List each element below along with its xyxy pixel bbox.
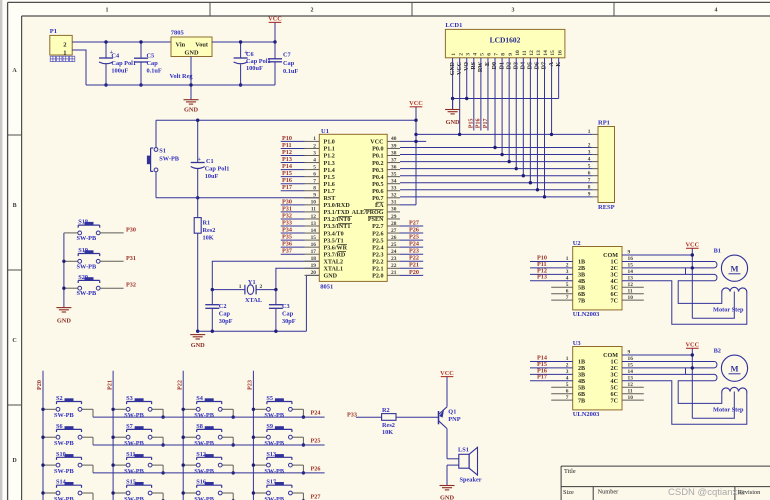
svg-text:VCC: VCC [685, 242, 699, 249]
resistor R2 [382, 414, 396, 421]
svg-text:Res2: Res2 [382, 422, 395, 429]
svg-text:SW-PB: SW-PB [264, 468, 285, 475]
svg-text:6: 6 [487, 53, 493, 56]
wire S17 to row bus [302, 493, 304, 500]
wire S14 to row bus [92, 493, 94, 500]
node row1 bus col3 [232, 415, 235, 418]
svg-text:Cap Pol1: Cap Pol1 [246, 58, 271, 65]
svg-text:P15: P15 [282, 170, 292, 177]
svg-text:S1: S1 [159, 147, 166, 154]
svg-text:6B: 6B [578, 392, 585, 398]
switch S19 [64, 260, 78, 262]
svg-text:10: 10 [311, 200, 317, 206]
svg-text:3C: 3C [611, 273, 618, 279]
svg-text:2: 2 [313, 143, 316, 149]
svg-text:P1.4: P1.4 [324, 168, 335, 174]
switch S6 [43, 436, 56, 438]
svg-text:S6: S6 [56, 423, 63, 430]
resistor pack RP1 body [598, 127, 615, 203]
svg-text:P3.5/T1: P3.5/T1 [324, 238, 344, 244]
svg-text:P17: P17 [483, 119, 489, 129]
svg-text:Volt Reg: Volt Reg [170, 73, 194, 80]
svg-text:22: 22 [391, 263, 397, 269]
svg-text:VCC: VCC [370, 140, 383, 146]
svg-text:P1.7: P1.7 [324, 189, 335, 195]
svg-text:SW-PB: SW-PB [194, 440, 215, 447]
wire 1C winding [622, 260, 715, 262]
svg-text:5B: 5B [578, 285, 585, 291]
svg-text:7805: 7805 [171, 30, 185, 37]
svg-text:1: 1 [313, 136, 316, 142]
svg-text:P13: P13 [282, 156, 292, 163]
svg-text:D: D [12, 458, 17, 464]
svg-text:5: 5 [313, 164, 316, 170]
svg-text:7: 7 [588, 178, 591, 184]
svg-text:16: 16 [557, 50, 563, 56]
svg-text:2: 2 [311, 8, 314, 14]
svg-text:P1.5: P1.5 [324, 175, 335, 181]
svg-text:SW-PB: SW-PB [77, 263, 98, 270]
svg-text:Cap: Cap [283, 60, 295, 67]
wire S3 to row bus [162, 409, 164, 417]
svg-text:36: 36 [391, 164, 397, 170]
svg-text:P25: P25 [409, 234, 419, 241]
svg-text:M: M [730, 364, 738, 374]
keypad row bus 2 [93, 444, 325, 446]
svg-text:LCD1602: LCD1602 [490, 36, 521, 45]
svg-text:SW-PB: SW-PB [124, 440, 145, 447]
svg-text:3B: 3B [578, 273, 585, 279]
keypad row bus 3 [93, 472, 325, 474]
switch S18 [64, 232, 78, 234]
capacitor C1 [197, 120, 199, 162]
wire S15 to row bus [162, 493, 164, 500]
svg-text:4: 4 [566, 375, 569, 381]
switch S11 [113, 464, 126, 466]
node R1 bottom [196, 330, 199, 333]
svg-text:RESP: RESP [598, 204, 615, 211]
switch S7 [113, 436, 126, 438]
svg-text:100uF: 100uF [111, 68, 128, 75]
wire S13 to row bus [302, 465, 304, 473]
svg-text:U2: U2 [573, 240, 581, 247]
wire hook2 return to coil left [678, 281, 722, 304]
svg-text:EA: EA [375, 203, 384, 209]
svg-text:Title: Title [564, 468, 576, 475]
svg-text:5: 5 [588, 163, 591, 169]
svg-text:P27: P27 [409, 219, 419, 226]
U3 unconnected output stubs [622, 386, 644, 388]
svg-text:P33: P33 [282, 219, 292, 226]
wire 2C jog to 3C row [685, 268, 687, 274]
svg-text:12: 12 [529, 50, 535, 56]
switch S20 [64, 287, 78, 289]
svg-text:6: 6 [566, 288, 569, 294]
svg-text:S11: S11 [126, 451, 135, 458]
node C2 gnd [211, 330, 214, 333]
svg-text:SW-PB: SW-PB [54, 468, 75, 475]
node S12 column [182, 463, 185, 466]
svg-text:P15: P15 [469, 119, 475, 129]
svg-text:S17: S17 [266, 479, 276, 486]
power VCC top [269, 21, 282, 23]
svg-text:32: 32 [391, 193, 397, 199]
svg-text:P3.0/RXD: P3.0/RXD [324, 203, 351, 209]
wire lcd gnd link [453, 98, 559, 100]
ground LCD GND [452, 99, 454, 110]
svg-text:3: 3 [512, 8, 515, 14]
svg-text:P0.7: P0.7 [372, 196, 383, 202]
svg-text:0.1uF: 0.1uF [147, 68, 162, 75]
wire RST rail [156, 197, 319, 199]
switch S10 [43, 464, 56, 466]
svg-text:2B: 2B [578, 266, 585, 272]
wire hook2 return to coil left [678, 381, 722, 404]
svg-text:1C: 1C [611, 360, 618, 366]
svg-text:16: 16 [311, 242, 317, 248]
node S7 column [111, 436, 114, 439]
svg-text:3: 3 [465, 53, 471, 56]
svg-text:P2.1: P2.1 [372, 267, 383, 273]
wire S8 to row bus [232, 437, 234, 445]
wire 7805 GND stem [190, 57, 192, 100]
svg-text:SW-PB: SW-PB [54, 496, 75, 500]
svg-text:2C: 2C [611, 366, 618, 372]
wire S5 to row bus [302, 409, 304, 417]
wire S16 to row bus [232, 493, 234, 500]
svg-text:SW-PB: SW-PB [194, 412, 215, 419]
svg-text:P2.7: P2.7 [372, 224, 383, 230]
svg-text:P2.4: P2.4 [372, 245, 383, 251]
svg-text:SW-PB: SW-PB [124, 496, 145, 500]
svg-text:9: 9 [588, 192, 591, 198]
U3 unconnected input stubs [551, 386, 573, 388]
node row2 bus col2 [161, 443, 164, 446]
node VCC rail [273, 40, 276, 43]
svg-text:P2.6: P2.6 [372, 231, 383, 237]
svg-text:P1.1: P1.1 [324, 147, 335, 153]
wire S7 to row bus [162, 437, 164, 445]
svg-text:20: 20 [311, 270, 317, 276]
margin strips [8, 2, 770, 16]
svg-text:P1.0: P1.0 [324, 140, 335, 146]
svg-text:P0.4: P0.4 [372, 175, 383, 181]
svg-text:C1: C1 [206, 158, 214, 165]
stepper motor B2 [721, 355, 747, 381]
svg-text:VCC: VCC [268, 16, 282, 23]
svg-text:15: 15 [550, 50, 556, 56]
node row3 bus col3 [232, 471, 235, 474]
power VCC Q1 [441, 376, 454, 378]
node S11 column [111, 463, 114, 466]
svg-text:SW-PB: SW-PB [54, 440, 75, 447]
svg-text:3: 3 [588, 149, 591, 155]
svg-text:Cap: Cap [219, 311, 231, 318]
node S17 column [252, 491, 255, 494]
svg-text:40: 40 [391, 136, 397, 142]
wire top rail to 7805 Vin [106, 41, 171, 43]
svg-text:P3.6/WR: P3.6/WR [324, 245, 348, 251]
svg-text:37: 37 [391, 157, 397, 163]
svg-text:7: 7 [494, 53, 500, 56]
svg-text:3B: 3B [578, 373, 585, 379]
svg-text:P1: P1 [50, 28, 57, 35]
svg-text:4: 4 [472, 53, 478, 56]
svg-text:8: 8 [313, 186, 316, 192]
svg-text:6C: 6C [611, 292, 618, 298]
node S9 column [252, 436, 255, 439]
svg-text:1: 1 [63, 49, 66, 56]
svg-text:SW-PB: SW-PB [264, 440, 285, 447]
node S4 column [182, 408, 185, 411]
svg-text:3: 3 [566, 369, 569, 375]
mcu U1 8051 body [319, 134, 387, 281]
svg-text:7: 7 [566, 395, 569, 401]
switch S8 [183, 436, 196, 438]
svg-text:COM: COM [603, 253, 618, 259]
switch S14 [43, 492, 56, 494]
svg-text:P2.3: P2.3 [372, 252, 383, 258]
svg-text:30pF: 30pF [282, 318, 296, 325]
switch S15 [113, 492, 126, 494]
node C6 bottom [239, 83, 242, 86]
svg-text:P35: P35 [282, 234, 292, 241]
ground S-group GND [56, 307, 71, 309]
svg-text:+: + [197, 156, 201, 163]
svg-text:1B: 1B [578, 360, 585, 366]
svg-text:P36: P36 [282, 241, 292, 248]
svg-text:1: 1 [566, 256, 569, 262]
svg-text:30: 30 [391, 207, 397, 213]
svg-text:14: 14 [543, 50, 549, 56]
svg-text:P1.2: P1.2 [324, 154, 335, 160]
node lcd pin15 vcc [550, 133, 553, 136]
svg-text:1: 1 [588, 129, 591, 135]
wire 4C to coil right [622, 281, 747, 325]
svg-text:C3: C3 [282, 303, 290, 310]
wire S2 to row bus [92, 409, 94, 417]
svg-text:38: 38 [391, 150, 397, 156]
regulator U 7805 [171, 37, 212, 57]
U1 port1 input wires with net labels P10-P17 [281, 140, 305, 142]
svg-text:GND: GND [191, 342, 205, 349]
node C1 bottom [196, 196, 199, 199]
svg-text:4B: 4B [578, 279, 585, 285]
wire S12 to row bus [232, 465, 234, 473]
svg-text:17: 17 [311, 249, 317, 255]
svg-text:2: 2 [566, 363, 569, 369]
svg-text:VCC: VCC [409, 100, 423, 107]
switch S16 [183, 492, 196, 494]
svg-text:25: 25 [391, 242, 397, 248]
RP1 pin stubs [593, 133, 598, 135]
wire crystal ground rail [198, 330, 307, 332]
svg-text:P20: P20 [409, 269, 419, 276]
wire P33 to R2 [356, 416, 382, 418]
svg-text:P11: P11 [282, 142, 292, 149]
switch S3 [113, 408, 126, 410]
svg-text:12: 12 [311, 214, 317, 220]
node row3 bus col4 [302, 471, 305, 474]
svg-text:9: 9 [313, 193, 316, 199]
svg-text:0.1uF: 0.1uF [283, 68, 298, 75]
node VCC rail S1 [414, 119, 417, 122]
svg-text:SW-PB: SW-PB [124, 412, 145, 419]
wire S6 to row bus [92, 437, 94, 445]
svg-text:B: B [13, 203, 17, 209]
svg-text:P0.6: P0.6 [372, 189, 383, 195]
node row4 bus col3 [232, 499, 235, 500]
capacitor C6 [240, 42, 242, 58]
wire 3C winding [622, 373, 715, 375]
node row4 bus col4 [302, 499, 305, 500]
node S14 column [41, 491, 44, 494]
switch S1 [155, 120, 157, 147]
svg-text:34: 34 [391, 179, 397, 185]
power VCC U1 [410, 106, 423, 108]
svg-text:2: 2 [458, 53, 464, 56]
node S19 left [62, 260, 65, 263]
svg-text:P1.6: P1.6 [324, 182, 335, 188]
svg-text:Q1: Q1 [448, 408, 456, 415]
svg-text:C: C [12, 338, 16, 344]
node row3 bus col2 [161, 471, 164, 474]
svg-text:7C: 7C [611, 298, 618, 304]
node S6 column [41, 436, 44, 439]
svg-text:Cap: Cap [147, 60, 159, 67]
svg-text:VCC: VCC [440, 370, 454, 377]
svg-text:R2: R2 [382, 407, 390, 414]
node row2 bus col3 [232, 443, 235, 446]
wire COM to VCC [622, 254, 692, 256]
svg-text:S20: S20 [78, 274, 88, 281]
svg-text:S18: S18 [78, 219, 88, 226]
ground reset GND [190, 334, 205, 336]
wire U1 GND pin loop [306, 275, 319, 331]
svg-text:Res2: Res2 [203, 227, 216, 234]
svg-text:29: 29 [391, 214, 397, 220]
svg-text:RP1: RP1 [598, 120, 610, 127]
svg-text:2C: 2C [611, 266, 618, 272]
wire R2 to Q1 base [396, 416, 439, 418]
wire 2C jog to 3C row [685, 368, 687, 374]
node C5 top [139, 40, 142, 43]
wire S20 to net label [100, 287, 123, 289]
capacitor C4 [105, 42, 107, 58]
svg-text:10K: 10K [203, 234, 214, 241]
svg-text:S2: S2 [56, 395, 63, 402]
svg-text:39: 39 [391, 143, 397, 149]
svg-text:S13: S13 [266, 451, 276, 458]
svg-text:1: 1 [106, 8, 109, 14]
wire XTAL2 loop [212, 261, 319, 289]
svg-text:S8: S8 [196, 423, 203, 430]
svg-text:P27: P27 [311, 493, 321, 500]
svg-text:P22: P22 [176, 380, 183, 390]
svg-text:C5: C5 [147, 53, 155, 60]
node C6 top [239, 40, 242, 43]
svg-text:4: 4 [588, 156, 591, 162]
svg-text:5: 5 [566, 382, 569, 388]
svg-text:1: 1 [566, 356, 569, 362]
svg-text:P10: P10 [282, 135, 292, 142]
U2 input wires with net labels [530, 260, 573, 262]
node C1 top [196, 119, 199, 122]
svg-text:P3.3/INT1: P3.3/INT1 [324, 224, 351, 230]
svg-text:SW-PB: SW-PB [77, 235, 98, 242]
svg-text:B1: B1 [714, 248, 721, 255]
svg-text:PSEN: PSEN [368, 217, 384, 223]
svg-text:10uF: 10uF [205, 173, 219, 180]
switch S9 [253, 436, 266, 438]
svg-text:7: 7 [566, 295, 569, 301]
P0 bus to lcd data junctions [493, 146, 496, 149]
svg-text:14: 14 [311, 228, 317, 234]
lcd pin wires [452, 58, 454, 110]
svg-text:GND: GND [184, 107, 198, 114]
svg-text:S9: S9 [266, 423, 273, 430]
U1 right pin stubs [387, 140, 400, 142]
node S15 column [111, 491, 114, 494]
svg-text:ALE/PROG: ALE/PROG [352, 210, 384, 216]
svg-text:30pF: 30pF [219, 318, 233, 325]
svg-text:P3.4/T0: P3.4/T0 [324, 231, 344, 237]
stepper motor B1 [721, 255, 747, 281]
svg-text:SW-PB: SW-PB [77, 290, 98, 297]
svg-text:18: 18 [311, 256, 317, 262]
wire bottom rail [86, 84, 275, 86]
svg-text:P24: P24 [409, 241, 419, 248]
wire P1 pin1 down [72, 50, 86, 85]
switch S5 [253, 408, 266, 410]
wire speaker to ground [447, 464, 459, 466]
svg-text:P0.2: P0.2 [372, 161, 383, 167]
svg-text:2: 2 [588, 142, 591, 148]
connector P1 [50, 35, 72, 55]
svg-text:13: 13 [311, 221, 317, 227]
wire XTAL1 loop [276, 268, 319, 289]
inner border [22, 15, 770, 17]
svg-text:P2.0: P2.0 [372, 274, 383, 280]
svg-text:3: 3 [566, 269, 569, 275]
svg-text:GND: GND [446, 119, 460, 126]
svg-text:GND: GND [185, 49, 199, 56]
svg-text:S3: S3 [126, 395, 133, 402]
switch S13 [253, 464, 266, 466]
svg-text:23: 23 [391, 256, 397, 262]
svg-text:Motor Step: Motor Step [713, 306, 744, 313]
wire S18 group vertical [63, 233, 65, 308]
svg-text:4: 4 [566, 275, 569, 281]
motor B1 coil [722, 287, 747, 293]
svg-text:P1.3: P1.3 [324, 161, 335, 167]
svg-text:5: 5 [566, 282, 569, 288]
svg-text:31: 31 [391, 200, 397, 206]
svg-text:7B: 7B [578, 398, 585, 404]
svg-text:S4: S4 [196, 395, 204, 402]
svg-text:P37: P37 [282, 248, 292, 255]
node row1 bus col2 [161, 415, 164, 418]
svg-text:P33: P33 [347, 411, 357, 418]
svg-text:SW-PB: SW-PB [264, 412, 285, 419]
svg-text:LCD1: LCD1 [445, 22, 462, 29]
svg-text:P0.3: P0.3 [372, 168, 383, 174]
node row2 bus col4 [302, 443, 305, 446]
switch S2 [43, 408, 56, 410]
svg-text:CSDN @cqtianxia: CSDN @cqtianxia [668, 487, 745, 498]
wire S19 to net label [100, 260, 123, 262]
svg-text:S10: S10 [56, 451, 66, 458]
